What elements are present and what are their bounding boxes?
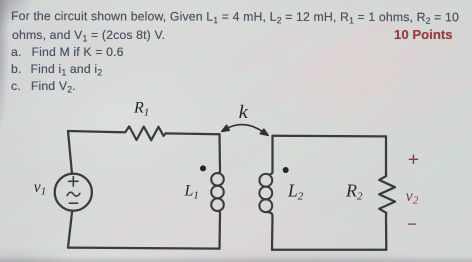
source symbol marks (+ ~ -): [67, 177, 80, 204]
svg-text:v1: v1: [34, 179, 46, 198]
voltage source v1 circle: [55, 174, 92, 211]
svg-text:L2: L2: [287, 181, 304, 203]
wire: loop1 bottom: [68, 248, 220, 249]
points label: [394, 29, 453, 41]
svg-text:R1: R1: [133, 100, 149, 119]
wire: loop2 left side upper lead: [270, 136, 272, 174]
coupling arrow k: [222, 125, 268, 136]
resistor R1: [122, 126, 166, 140]
svg-text:k: k: [239, 103, 249, 123]
wire: loop1 top-right segment: [166, 132, 220, 135]
item b: [11, 63, 102, 75]
inductor L1 coil: [211, 173, 224, 211]
wire: loop1 left side lower lead: [68, 211, 72, 248]
dot mark L2: [283, 167, 289, 173]
wire: loop2 right side upper lead: [385, 136, 387, 173]
svg-text:L1: L1: [184, 183, 199, 202]
wire: loop2 left side lower lead: [267, 212, 273, 250]
inductor L1 lower lead: [219, 211, 221, 249]
dot mark L1: [200, 165, 206, 171]
item c: [11, 80, 76, 92]
svg-text:+: +: [408, 149, 419, 171]
problem text line 1: [11, 10, 459, 23]
wire: loop2 top: [273, 135, 387, 138]
svg-text:v2: v2: [406, 188, 419, 207]
svg-text:R2: R2: [345, 181, 363, 203]
resistor R2: [379, 173, 395, 216]
wire: loop2 right side lower lead: [385, 216, 388, 250]
problem text line 2: [12, 29, 165, 41]
inductor L1 upper lead: [218, 134, 220, 173]
wire: loop1 top-left segment: [68, 131, 122, 132]
inductor L2 coil: [259, 174, 272, 212]
wire: loop2 bottom: [272, 249, 386, 251]
wire: loop1 left side upper lead: [68, 131, 72, 174]
svg-text:−: −: [407, 214, 417, 234]
item a: [11, 46, 124, 58]
